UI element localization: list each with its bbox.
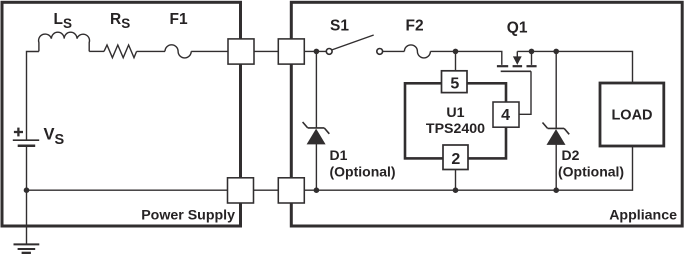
load box [600, 83, 664, 146]
wire: RS to F1 [137, 50, 165, 52]
svg-text:U1: U1 [446, 105, 464, 121]
svg-text:4: 4 [501, 107, 510, 124]
switch S1 [326, 35, 382, 54]
inductor LS [39, 32, 90, 51]
wire: power supply bottom rail [27, 189, 229, 191]
ground [14, 244, 40, 253]
svg-text:Power Supply: Power Supply [141, 208, 235, 224]
wire: pin2 to bottom rail [455, 170, 457, 191]
wire: D2 branch down [555, 51, 557, 128]
wire: F2 to Q1 source [430, 51, 501, 65]
wire: pin5 riser [455, 51, 457, 71]
op-amp U1 TPS2400 box [405, 83, 506, 158]
node: junction dot Q1 drain [529, 49, 535, 55]
battery VS bottom plate [18, 145, 36, 148]
svg-text:LOAD: LOAD [611, 107, 652, 123]
zener diode D1 [303, 122, 330, 144]
node: junction dot D1 branch top [314, 49, 320, 55]
svg-text:D2: D2 [562, 147, 580, 163]
svg-text:D1: D1 [330, 147, 348, 163]
node: junction dot D2 bottom [553, 187, 559, 193]
node: junction dot D2 branch top [553, 49, 559, 55]
fuse F2 [404, 45, 430, 58]
resistor RS [104, 45, 137, 58]
wire: D1 to bottom rail [315, 144, 317, 190]
wire: battery down through rail to ground [26, 146, 28, 245]
connector square bottom-right [278, 178, 304, 203]
wire: battery top to inductor [27, 52, 39, 141]
pin 2 [443, 145, 468, 170]
battery VS top plate [13, 139, 39, 141]
connector square top-right [278, 39, 304, 64]
svg-text:Appliance: Appliance [609, 208, 677, 224]
wire: F1 to connector [191, 50, 228, 52]
wire: between bottom connectors [254, 189, 279, 191]
wire: connector to switch S1 [304, 50, 326, 52]
node: junction dot pin5 branch [453, 49, 459, 55]
svg-text:(Optional): (Optional) [558, 163, 624, 179]
svg-text:Q1: Q1 [507, 19, 528, 36]
svg-text:5: 5 [450, 75, 459, 92]
svg-text:F2: F2 [406, 18, 424, 35]
plus sign [14, 128, 23, 137]
zener diode D2 [543, 123, 570, 145]
connector square top-left [228, 39, 254, 64]
svg-text:F1: F1 [170, 11, 188, 28]
node: junction dot pin2 bottom [453, 187, 459, 193]
connector square bottom-left [228, 178, 254, 203]
svg-text:TPS2400: TPS2400 [426, 121, 485, 137]
fuse F1 [165, 45, 191, 58]
transistor Q1 PMOS [497, 51, 537, 114]
wire: S1 to F2 [383, 50, 405, 52]
node: junction dot VS/bottom rail [24, 187, 30, 193]
svg-text:(Optional): (Optional) [330, 163, 396, 179]
node: junction dot D1 bottom [314, 187, 320, 193]
svg-text:2: 2 [451, 151, 460, 168]
wire: appliance bottom rail [304, 146, 632, 190]
power supply box [2, 2, 241, 226]
wire: LS to RS [89, 50, 104, 52]
wire: Q1 drain rail to LOAD [517, 51, 632, 83]
svg-text:S1: S1 [330, 18, 349, 35]
wire: D2 to bottom rail [555, 145, 557, 191]
wire: between top connectors [254, 50, 278, 52]
pin 4 [493, 102, 519, 127]
appliance box [291, 2, 682, 226]
wire: D1 branch down [315, 51, 317, 128]
pin 5 [442, 71, 468, 93]
